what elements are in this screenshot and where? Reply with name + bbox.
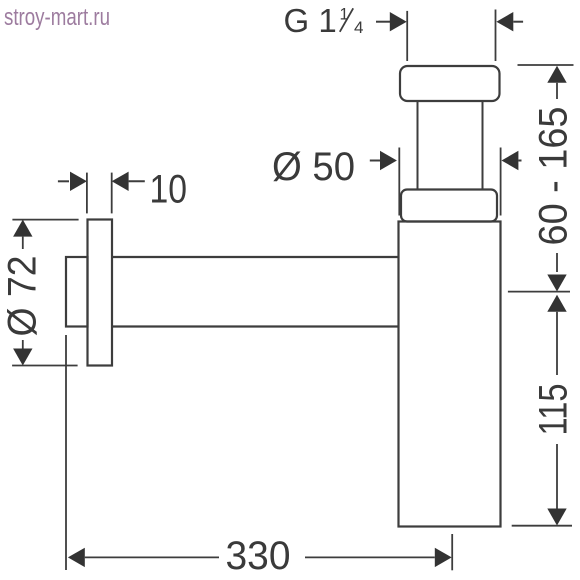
- dimension d50 left extension line: [398, 148, 400, 216]
- svg-text:60 - 165: 60 - 165: [532, 107, 576, 246]
- dimension d72 top reference line: [12, 219, 78, 221]
- dimension 330 left extension line: [65, 335, 67, 570]
- dimension 115 bottom reference line: [512, 525, 572, 527]
- dimension G 1 1/4 right arrow: [496, 12, 523, 31]
- dimension G 1 1/4 left extension line: [406, 11, 408, 61]
- dimension 10 right extension line: [111, 173, 113, 214]
- dimension d72 bottom arrow: [13, 340, 32, 366]
- dimension 330 left arrow: [68, 548, 219, 567]
- dimension 10 right arrow: [112, 172, 145, 191]
- dimension 330 right extension line: [451, 534, 453, 570]
- dimension d72 top arrow: [13, 220, 32, 249]
- svg-text:115: 115: [532, 384, 576, 436]
- dimension 115 bottom arrow: [547, 444, 566, 526]
- dimension 10 left extension line: [86, 173, 88, 214]
- dimension 60-165 bottom arrow: [547, 253, 566, 292]
- svg-text:10: 10: [150, 168, 188, 212]
- label G 1 1/4: [284, 2, 364, 39]
- svg-text:1: 1: [340, 6, 349, 24]
- body cylinder: [399, 222, 501, 527]
- wall flange: [88, 220, 113, 366]
- svg-text:4: 4: [354, 18, 363, 37]
- dimension 330 right arrow: [305, 548, 452, 567]
- pipe top line: [112, 256, 399, 258]
- dimension middle reference line: [508, 291, 570, 293]
- svg-text:stroy-mart.ru: stroy-mart.ru: [4, 4, 110, 31]
- ring flange: [401, 190, 497, 222]
- dimension 115 top arrow: [547, 295, 566, 375]
- svg-text:330: 330: [226, 534, 291, 578]
- pipe bottom line: [112, 325, 399, 327]
- neck tube: [418, 101, 483, 190]
- dimension G 1 1/4 right extension line: [495, 10, 497, 62]
- pipe left stub: [66, 257, 88, 327]
- dimension d50 right extension line: [500, 148, 502, 216]
- svg-text:Ø 50: Ø 50: [272, 145, 355, 189]
- svg-text:G 1: G 1: [284, 2, 337, 39]
- svg-text:Ø 72: Ø 72: [1, 256, 45, 337]
- dimension 60-165 top reference line: [518, 64, 574, 66]
- dimension d50 right arrow: [502, 151, 522, 170]
- dimension d50 left arrow: [370, 151, 397, 170]
- dimension G 1 1/4 left arrow: [376, 12, 407, 31]
- dimension 10 left arrow: [58, 172, 87, 191]
- cap nut (top flange of siphon): [400, 66, 500, 101]
- dimension d72 bottom reference line: [12, 365, 78, 367]
- dimension 60-165 top arrow: [547, 66, 566, 99]
